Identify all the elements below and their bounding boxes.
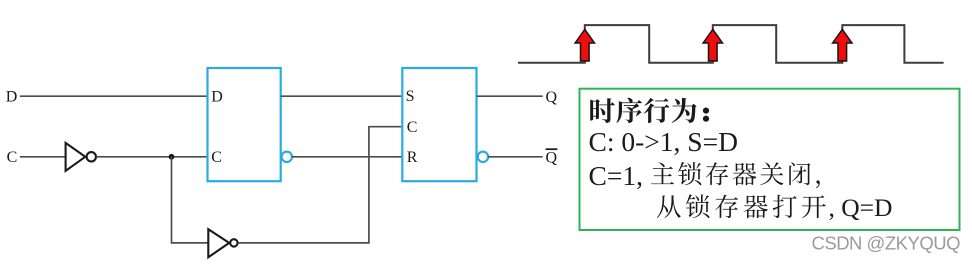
- svg-text:C: C: [407, 119, 418, 136]
- inverter (NOT gate) on C line: [66, 143, 96, 171]
- rising edge arrow 2: [703, 29, 722, 61]
- rising edge arrow 3: [833, 29, 852, 61]
- annotation box (green border): [580, 89, 960, 230]
- svg-text:C=1,: C=1,: [589, 160, 643, 191]
- wire U2 bubble to output Q-bar: [488, 156, 543, 158]
- svg-text:CSDN @ZKYQUQ: CSDN @ZKYQUQ: [812, 233, 961, 254]
- text line 主锁存器关闭，: [651, 162, 820, 188]
- svg-text:D: D: [6, 88, 18, 105]
- svg-text:Q: Q: [546, 89, 558, 106]
- bottom inverter (NOT gate): [208, 229, 237, 257]
- svg-text:C: C: [211, 149, 222, 166]
- wire U1 bubble to U2 R pin: [292, 156, 402, 158]
- svg-text:C: 0->1, S=D: C: 0->1, S=D: [589, 126, 738, 157]
- svg-text:D: D: [211, 88, 223, 105]
- wire C input to inverter: [20, 156, 66, 158]
- Q-bar overline: [546, 148, 558, 150]
- wire bottom inverter output up to latch U2 C pin: [238, 127, 402, 243]
- title colon: [703, 108, 709, 114]
- latch U2 inverted output bubble: [478, 152, 488, 162]
- wire D input to latch U1: [20, 95, 208, 97]
- latch U1 (master D latch) box: [208, 68, 281, 181]
- wire junction down to bottom inverter: [172, 157, 209, 243]
- wire inverter output to latch U1 C pin: [96, 156, 207, 158]
- clock waveform: [518, 25, 944, 63]
- svg-text:Q: Q: [546, 149, 558, 166]
- text line 从锁存器打开: [657, 194, 826, 218]
- svg-text:S: S: [406, 88, 415, 105]
- rising edge arrow 1: [575, 29, 594, 61]
- wire U2 to output Q: [477, 95, 543, 97]
- wire U1 D-row to U2 S pin: [281, 95, 403, 97]
- svg-text:R: R: [407, 149, 418, 166]
- latch U2 (slave SR latch) box: [402, 68, 476, 181]
- text title 时序行为: [590, 98, 696, 123]
- latch U1 inverted output bubble: [282, 152, 292, 162]
- svg-text:C: C: [7, 149, 18, 166]
- svg-text:, Q=D: , Q=D: [829, 193, 893, 222]
- junction node on C-bar wire: [169, 154, 175, 160]
